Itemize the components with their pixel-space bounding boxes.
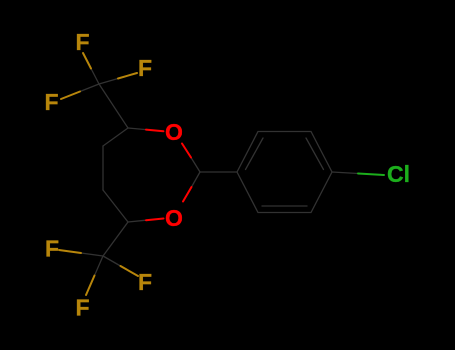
wire: bond C(CF3 top)-F1 gray half xyxy=(91,69,99,85)
benzene inner double bond upper-right xyxy=(306,138,324,170)
wire: bond C(CF3 bottom)-F6 gray half xyxy=(95,256,104,276)
wire: bond C(CF3 bottom)-F6 olive half xyxy=(86,276,95,296)
svg-text:F: F xyxy=(75,295,89,321)
benzene ring outline xyxy=(237,132,332,213)
wire: bond C4-O1 red half xyxy=(146,130,164,132)
svg-text:F: F xyxy=(75,29,89,55)
wire: bond C(CF3 bottom)-F5 olive half xyxy=(121,266,139,276)
svg-text:F: F xyxy=(138,55,152,81)
wire: bond C2-O3 red half xyxy=(183,187,192,202)
benzene inner double bond bottom xyxy=(262,205,307,207)
svg-text:F: F xyxy=(138,269,152,295)
wire: bond C4'-Cl green half xyxy=(358,174,384,176)
wire: bond C5-C6 (vertical) xyxy=(102,146,104,190)
svg-text:F: F xyxy=(45,236,59,262)
svg-text:O: O xyxy=(165,205,183,231)
wire: bond C2-phenyl C1' xyxy=(200,171,237,173)
svg-text:F: F xyxy=(44,89,58,115)
wire: bond C2-O1 red half xyxy=(182,144,191,158)
svg-text:O: O xyxy=(165,119,183,145)
wire: bond C(CF3 bottom)-F4 gray half xyxy=(81,253,103,256)
wire: bond C7-O3 gray half xyxy=(128,220,146,222)
wire: bond C(CF3 bottom)-F4 olive half xyxy=(59,250,81,253)
wire: bond C(CF3 top)-F1 olive half xyxy=(83,53,91,69)
wire: bond C(CF3 top)-F2 gray half xyxy=(99,79,118,85)
wire: bond C(CF3 top)-F2 olive half xyxy=(118,73,137,79)
wire: bond C(CF3 bottom)-F5 gray half xyxy=(103,256,121,266)
wire: bond C4-C5 xyxy=(103,128,128,146)
svg-text:Cl: Cl xyxy=(387,161,410,187)
wire: bond C2-O1 gray half xyxy=(191,158,200,173)
wire: bond C(CF3 top)-C4 xyxy=(99,84,128,128)
wire: bond C7-C(CF3 bottom) xyxy=(103,222,128,256)
wire: bond C(CF3 top)-F3 gray half xyxy=(80,84,99,92)
wire: bond C4-O1 gray half xyxy=(128,128,146,130)
wire: bond C(CF3 top)-F3 olive half xyxy=(61,92,80,100)
benzene inner double bond upper-left xyxy=(246,138,264,170)
wire: bond C2-O3 gray half xyxy=(192,172,201,187)
wire: bond C6-C7 xyxy=(103,190,128,222)
wire: bond C7-O3 red half xyxy=(146,219,164,221)
wire: bond C4'-Cl gray half xyxy=(332,172,358,174)
